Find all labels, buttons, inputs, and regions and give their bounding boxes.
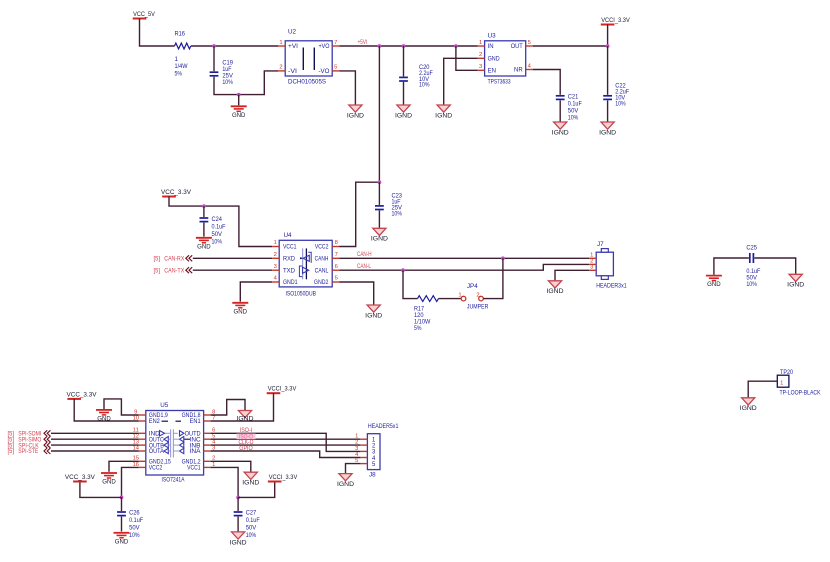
junction VCCI junction — [606, 44, 610, 48]
svg-text:GPIO: GPIO — [239, 445, 253, 452]
svg-text:IGND: IGND — [435, 112, 453, 119]
ground IGND (U5 GND1,2) — [242, 472, 260, 486]
off-page connector SPI-CLK — [8, 442, 40, 449]
svg-text:2: 2 — [476, 293, 479, 299]
wire CAN-RX wire — [193, 257, 272, 259]
svg-text:8: 8 — [335, 240, 338, 246]
svg-text:-VI: -VI — [288, 69, 297, 75]
ground GND (U4 GND1) — [232, 303, 248, 316]
svg-text:U2: U2 — [288, 29, 297, 36]
svg-text:5: 5 — [335, 276, 338, 282]
wire C22 top lead — [607, 46, 609, 95]
wire C21 bottom lead — [559, 100, 561, 121]
svg-text:IGND: IGND — [547, 288, 565, 295]
svg-text:7: 7 — [335, 252, 338, 258]
svg-text:CAN-L: CAN-L — [357, 263, 371, 270]
svg-text:3: 3 — [590, 264, 593, 270]
wire U3 NR to C21 — [533, 70, 561, 95]
svg-text:5: 5 — [334, 65, 337, 71]
svg-text:CAN-RX: CAN-RX — [164, 256, 185, 263]
svg-text:5%: 5% — [175, 70, 183, 77]
svg-text:IN: IN — [488, 44, 494, 50]
svg-text:J7: J7 — [597, 241, 604, 248]
junction C23 junction — [378, 180, 382, 184]
ground IGND (C22) — [599, 122, 617, 136]
svg-text:C24: C24 — [212, 216, 223, 223]
svg-text:GND: GND — [102, 479, 116, 486]
svg-text:IGND: IGND — [599, 129, 617, 136]
wire C24 top lead — [203, 206, 205, 217]
power flag VCC_3.3V u5 left — [67, 391, 98, 399]
wire GND lead — [238, 95, 240, 106]
svg-text:INA: INA — [190, 449, 201, 455]
svg-text:GND1: GND1 — [283, 280, 298, 286]
svg-text:1: 1 — [274, 240, 277, 246]
ground IGND (C23) — [371, 228, 389, 242]
wire C19 bottom to -VI — [214, 71, 278, 95]
svg-text:VCC_5V: VCC_5V — [133, 11, 156, 18]
isolator U5 ISO7241A — [146, 402, 204, 484]
C24 value labels — [212, 216, 226, 246]
wire R17 to JP4 pin 1 — [439, 298, 462, 300]
off-page connector SPI-SOMI — [8, 431, 42, 438]
U2 pin stubs and numbers — [278, 40, 339, 71]
power flag VCCI_3.3V bottom — [268, 474, 298, 482]
ground IGND (TP20) — [740, 398, 758, 412]
power flag VCCI_3.3V u5 — [267, 386, 297, 394]
wire CAN-L to R17 — [403, 270, 418, 298]
svg-text:50V: 50V — [568, 108, 579, 115]
wire TP20 to IGND — [748, 381, 777, 397]
wire C27 top lead — [237, 497, 239, 511]
ground IGND (C20) — [395, 105, 413, 119]
svg-text:IGND: IGND — [347, 112, 365, 119]
svg-text:JP4: JP4 — [467, 283, 478, 290]
svg-text:IGND: IGND — [371, 236, 389, 243]
label R16 values — [175, 30, 186, 37]
svg-text:10%: 10% — [392, 210, 403, 217]
wire +5VI vertical to CAN section — [378, 46, 380, 182]
svg-text:[5]: [5] — [154, 269, 161, 275]
wire U5 GND1,2 to IGND — [211, 461, 251, 472]
C19 value labels — [222, 59, 233, 86]
svg-text:10%: 10% — [615, 100, 626, 107]
svg-text:1/4W: 1/4W — [175, 63, 188, 70]
svg-text:VCCI_3.3V: VCCI_3.3V — [268, 386, 297, 393]
net label ISO-O (highlighted) — [237, 434, 256, 440]
svg-text:5: 5 — [528, 40, 531, 46]
svg-text:IGND: IGND — [337, 481, 355, 488]
svg-text:-VO: -VO — [319, 69, 330, 75]
off-page connector CAN-TX — [154, 268, 185, 275]
wire C26 bottom lead — [121, 517, 123, 532]
svg-text:EN: EN — [488, 69, 496, 75]
svg-text:CANH: CANH — [315, 257, 329, 263]
power flag VCCI_3.3V top — [601, 17, 631, 25]
svg-text:3: 3 — [479, 64, 482, 70]
svg-text:RXD: RXD — [283, 257, 296, 263]
wire net GPIO — [211, 451, 361, 458]
capacitor C19 — [210, 72, 219, 76]
wire R16 to U2 pin 1 — [191, 45, 278, 47]
svg-text:VCC_3.3V: VCC_3.3V — [161, 189, 192, 196]
svg-text:1: 1 — [458, 293, 461, 299]
power flag VCC_3.3V bottom — [65, 474, 96, 482]
capacitor C20 — [399, 77, 408, 81]
svg-text:GND2,15: GND2,15 — [149, 460, 172, 466]
svg-text:GND: GND — [232, 112, 246, 119]
capacitor C27 — [234, 512, 243, 516]
svg-text:VCC1: VCC1 — [283, 245, 297, 251]
capacitor C22 — [603, 96, 612, 100]
ground IGND (U3 GND) — [435, 105, 453, 119]
wire CAN-TX wire — [193, 269, 272, 271]
wire C25 to IGND — [754, 258, 795, 274]
svg-text:TP-LOOP-BLACK: TP-LOOP-BLACK — [780, 389, 822, 396]
svg-text:C21: C21 — [568, 93, 579, 100]
regulator U3 TPS73633 — [485, 33, 526, 86]
svg-text:JUMPER: JUMPER — [467, 303, 489, 310]
U3 pin stubs and numbers — [478, 40, 533, 71]
wire C20 bottom lead — [403, 82, 405, 105]
wire net +5VI rail — [339, 45, 477, 47]
wire net CAN-H — [339, 257, 589, 259]
svg-text:1: 1 — [780, 380, 783, 386]
wire net ISO-I — [211, 433, 361, 451]
ground IGND (-VO) — [347, 105, 365, 119]
svg-text:0.1uF: 0.1uF — [568, 101, 582, 108]
wire net CLK-O — [211, 444, 361, 446]
svg-text:J8: J8 — [369, 472, 376, 479]
svg-text:GND: GND — [197, 243, 211, 250]
svg-text:VCC2: VCC2 — [315, 245, 329, 251]
junction CAN-H terminator tap — [501, 256, 505, 260]
svg-text:VCC_3.3V: VCC_3.3V — [67, 391, 98, 398]
svg-text:NR: NR — [514, 68, 523, 74]
resistor R17 — [418, 296, 439, 302]
capacitor C25 (horizontal) — [750, 253, 754, 263]
svg-text:3: 3 — [355, 446, 358, 452]
wire VCCI_3.3V to EN1 — [211, 393, 274, 421]
svg-text:IGND: IGND — [740, 405, 758, 412]
svg-text:GND: GND — [115, 538, 129, 545]
junction C20 tap — [402, 44, 406, 48]
svg-text:VCCI_3.3V: VCCI_3.3V — [269, 474, 298, 481]
wire SPI-SOMI wire — [51, 432, 139, 434]
C21 value labels — [568, 93, 582, 121]
wire C20 top lead — [403, 46, 405, 76]
svg-text:U5: U5 — [160, 402, 169, 409]
wire U4 GND1 to GND — [240, 282, 272, 302]
svg-text:VCC1: VCC1 — [187, 466, 201, 472]
wire C19 top lead — [213, 46, 215, 71]
svg-text:C25: C25 — [746, 244, 757, 251]
svg-text:GND: GND — [97, 416, 111, 423]
svg-text:2: 2 — [479, 52, 482, 58]
wire U3 OUT to VCCI rail — [533, 45, 608, 47]
svg-text:10%: 10% — [222, 79, 233, 86]
wire VCCI flag vertical — [607, 25, 609, 47]
svg-text:VCC2: VCC2 — [149, 466, 163, 472]
wire SPI-CLK wire — [51, 444, 139, 446]
svg-text:10%: 10% — [212, 239, 223, 246]
wire C23 top lead — [378, 182, 380, 205]
svg-text:2: 2 — [279, 65, 282, 71]
svg-text:10%: 10% — [246, 532, 257, 539]
svg-text:TPS73633: TPS73633 — [488, 78, 511, 85]
wire JP4 pin 2 to CAN-H — [483, 258, 503, 298]
wire SPI-SIMO wire — [51, 438, 139, 440]
capacitor C21 — [556, 96, 565, 100]
wire U4 GND2 to IGND — [339, 282, 374, 305]
svg-text:[5]: [5] — [154, 257, 161, 263]
svg-text:C26: C26 — [129, 510, 140, 517]
svg-text:VCCI_3.3V: VCCI_3.3V — [601, 17, 630, 24]
svg-text:U3: U3 — [488, 33, 497, 40]
resistor R16 — [175, 43, 191, 49]
svg-text:1: 1 — [175, 56, 179, 63]
svg-text:ISO1050DUB: ISO1050DUB — [286, 290, 317, 297]
svg-text:GND: GND — [488, 57, 501, 63]
dc-dc converter U2 DCH010505S — [285, 29, 332, 86]
wire J7 pin 3 to IGND — [555, 270, 589, 280]
ground GND (C24) — [196, 238, 212, 251]
ground IGND (C27) — [230, 532, 248, 546]
svg-text:VCC_3.3V: VCC_3.3V — [65, 474, 96, 481]
svg-text:CAN-H: CAN-H — [357, 251, 372, 258]
junction CAN-L terminator tap — [401, 268, 405, 272]
wire VCC_3.3V to EN2 — [74, 399, 139, 421]
svg-text:IGND: IGND — [395, 112, 413, 119]
off-page connector SPI-STE — [8, 448, 39, 455]
wire VCC_3.3V to U4 VCC1 — [169, 197, 272, 247]
R17 value labels — [414, 306, 430, 332]
svg-text:GND2: GND2 — [314, 280, 329, 286]
wire VCC_5V drop to main rail — [140, 19, 175, 47]
wire GND to C25 — [714, 258, 749, 275]
wire U5 VCC2 to VCC and C26 — [122, 467, 139, 497]
svg-text:10%: 10% — [419, 82, 430, 89]
C23 value labels — [392, 193, 403, 218]
svg-text:0.1uF: 0.1uF — [129, 517, 143, 524]
junction C24 tap — [202, 204, 206, 208]
svg-text:OUTA: OUTA — [149, 449, 164, 455]
test point TP20 TP-LOOP-BLACK — [777, 369, 821, 396]
junction C27 junction — [236, 496, 240, 500]
wire U5 GND2,15 to GND — [109, 461, 139, 472]
wire C22 bottom lead — [607, 100, 609, 121]
ground IGND (U4 GND2) — [365, 305, 383, 319]
wire C23 bottom lead — [378, 211, 380, 228]
svg-text:EN2: EN2 — [149, 419, 161, 425]
svg-text:1: 1 — [279, 40, 282, 46]
wire SPI-STE wire — [51, 450, 139, 452]
wire -VO to IGND — [339, 71, 355, 105]
svg-text:SPI-STE: SPI-STE — [18, 448, 38, 455]
ground IGND (J7) — [547, 281, 565, 295]
svg-text:R16: R16 — [175, 30, 186, 37]
C20 value labels — [419, 64, 433, 88]
svg-text:7: 7 — [334, 40, 337, 46]
svg-text:U4: U4 — [284, 232, 293, 239]
svg-text:IGND: IGND — [552, 129, 570, 136]
svg-text:50V: 50V — [212, 231, 223, 238]
junction EN tap — [454, 44, 458, 48]
svg-text:[5]: [5] — [8, 449, 15, 455]
wire net CAN-L — [339, 264, 589, 270]
svg-text:10%: 10% — [129, 532, 140, 539]
C22 value labels — [615, 83, 629, 108]
connector J8 HEADER5x1 — [367, 423, 398, 479]
svg-text:+5VI: +5VI — [358, 39, 368, 46]
svg-text:HEADER5x1: HEADER5x1 — [368, 423, 399, 430]
svg-text:10%: 10% — [746, 281, 757, 288]
connector J7 HEADER3x1 — [596, 241, 627, 289]
ground IGND (J8 pin 5) — [337, 474, 355, 488]
svg-text:IGND: IGND — [242, 480, 260, 487]
power flag VCC_5V — [133, 11, 156, 19]
svg-text:TP20: TP20 — [780, 369, 793, 376]
svg-text:HEADER3x1: HEADER3x1 — [596, 282, 627, 289]
svg-text:OUT: OUT — [511, 44, 523, 50]
junction +5VI isolated rail drop — [378, 44, 382, 48]
wire C24 bottom lead — [203, 223, 205, 237]
svg-text:+VI: +VI — [288, 44, 298, 50]
svg-text:1: 1 — [590, 252, 593, 258]
svg-text:50V: 50V — [129, 525, 140, 532]
svg-text:50V: 50V — [246, 525, 257, 532]
U4 pin stubs and numbers — [272, 240, 339, 282]
svg-text:10: 10 — [133, 415, 139, 421]
capacitor C26 — [117, 512, 126, 516]
ground GND (C26) — [114, 533, 130, 546]
ground IGND (C21) — [552, 122, 570, 136]
svg-text:CANL: CANL — [315, 268, 329, 274]
ground IGND (U5 pin 8) — [237, 411, 255, 423]
wire U3 GND pin to IGND — [444, 58, 478, 104]
svg-text:EN1: EN1 — [190, 419, 202, 425]
svg-text:IGND: IGND — [230, 539, 248, 546]
svg-text:+VO: +VO — [319, 44, 330, 50]
svg-text:1: 1 — [479, 40, 482, 46]
svg-text:CAN-TX: CAN-TX — [164, 268, 185, 275]
jumper JP4 — [458, 283, 488, 310]
wire C26 top lead — [121, 497, 123, 511]
ground IGND (C25) — [787, 274, 805, 288]
svg-text:GND1,2: GND1,2 — [182, 460, 202, 466]
junction C26 junction — [120, 496, 124, 500]
svg-text:5%: 5% — [414, 325, 422, 332]
C27 value labels — [246, 510, 260, 539]
U5 pin stubs and numbers — [133, 409, 217, 467]
svg-text:0.1uF: 0.1uF — [212, 224, 226, 231]
power flag VCC_3.3V mid — [161, 189, 192, 197]
wire U4 VCC2 to +5VI — [339, 182, 379, 246]
C25 value labels — [746, 244, 757, 251]
ground GND (U5 GND2,15) — [101, 473, 117, 486]
svg-text:DCH010505S: DCH010505S — [288, 78, 326, 85]
junction GND tap under C19 — [237, 93, 241, 97]
svg-text:2: 2 — [355, 440, 358, 446]
svg-text:IGND: IGND — [787, 282, 805, 289]
wire C27 bottom lead — [237, 517, 239, 532]
svg-text:0.1uF: 0.1uF — [246, 517, 260, 524]
ground GND (C19) — [231, 106, 247, 119]
svg-text:6: 6 — [335, 264, 338, 270]
svg-text:ISO7241A: ISO7241A — [162, 477, 186, 484]
off-page connector CAN-RX — [154, 256, 185, 263]
capacitor C23 — [375, 206, 384, 210]
svg-text:TXD: TXD — [283, 268, 296, 274]
capacitor C24 — [200, 218, 209, 222]
wire net ISO-O — [211, 438, 361, 440]
svg-text:2: 2 — [274, 252, 277, 258]
ground GND (C25) — [706, 276, 722, 289]
wire U5 VCC1 to VCCI and C27 — [211, 467, 239, 497]
transceiver U4 ISO1050DUB — [279, 232, 332, 297]
svg-text:GND: GND — [234, 308, 248, 315]
wire U5 pin 8 to IGND — [211, 400, 245, 416]
off-page connector SPI-SIMO — [8, 436, 42, 443]
C26 value labels — [129, 510, 143, 539]
wire junction to VCC_3.3V flag — [80, 482, 122, 498]
wire J8 pin 5 to IGND — [346, 464, 361, 474]
svg-text:C27: C27 — [246, 510, 257, 517]
wire EN tap to U3 pin 3 — [456, 46, 478, 70]
wire junction to VCCI flag — [238, 482, 275, 498]
J7 pin stubs and numbers — [589, 252, 596, 270]
J8 pin stubs and numbers — [355, 434, 367, 464]
ground GND (U5 pin 9) — [96, 410, 112, 423]
svg-text:IGND: IGND — [365, 312, 383, 319]
wire GND to U5 pin 9 — [104, 399, 139, 415]
junction C19 tap — [212, 44, 216, 48]
svg-text:GND: GND — [707, 281, 721, 288]
svg-text:10%: 10% — [568, 115, 579, 122]
svg-text:3: 3 — [274, 264, 277, 270]
